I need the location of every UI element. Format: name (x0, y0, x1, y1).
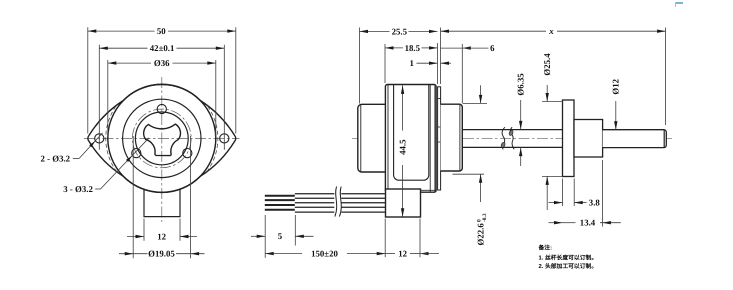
dim 44.5 line (402, 85, 404, 130)
insulated wires (295, 193, 386, 195)
mounting hole right (220, 134, 229, 143)
dim 6 ext line right (461, 44, 463, 104)
dim D19.05 line (119, 253, 148, 255)
dim 50 ext lines (87, 27, 89, 133)
motor body left edge line (387, 85, 389, 192)
svg-text:Ø19.05: Ø19.05 (148, 249, 175, 259)
bolt hole bottom-left (132, 149, 141, 158)
wire break squiggles (335, 187, 337, 217)
dim x line (441, 30, 547, 32)
dim D19.05 ext lines (132, 136, 134, 258)
dim 42 ext lines (98, 45, 100, 150)
svg-text:12: 12 (157, 231, 166, 241)
front boss edge line (360, 105, 362, 172)
shaft break squiggle right (510, 127, 514, 149)
dim x ext line right (665, 28, 667, 126)
dim 12 ext lines (143, 219, 145, 241)
dim 12b line (385, 253, 395, 255)
leader 3-D3.2 line (95, 188, 100, 190)
dim 150 line (265, 253, 302, 255)
dim 18.5 ext line left (384, 44, 386, 83)
dim 13.4 ext line (601, 160, 603, 227)
back plate (438, 87, 441, 190)
svg-text:12: 12 (398, 249, 407, 259)
svg-text:150±20: 150±20 (311, 249, 338, 259)
lead screw shaft (462, 129, 562, 131)
rotor hub cutout (144, 124, 181, 156)
dim 3.8 ext lines (562, 179, 564, 207)
bottom tab (144, 190, 180, 217)
connector block (386, 189, 421, 217)
side view axis centerline (352, 137, 672, 139)
dim D22.6 ext lines (463, 102, 487, 104)
back plate tick 1 (438, 126, 441, 128)
wire break white gap (334, 189, 341, 215)
motor body right edge line (434, 85, 436, 192)
notes text (538, 244, 598, 270)
motor body inner case (394, 85, 429, 180)
rear collar (441, 104, 463, 171)
front boss (358, 104, 385, 172)
svg-text:Ø22.6: Ø22.6 (476, 223, 486, 246)
hidden arc left wing (106, 106, 116, 170)
flange disc D25.4 (563, 100, 575, 177)
inner circle (123, 99, 201, 177)
dim 5 line (251, 235, 265, 237)
motor body circle D36 (108, 84, 216, 192)
dim 3.8 line (549, 202, 563, 204)
dim 5 ext lines (264, 215, 266, 246)
svg-text:5: 5 (278, 231, 283, 241)
svg-text:18.5: 18.5 (405, 43, 421, 53)
pilot circle (135, 112, 188, 165)
motor body bottom edge line (421, 189, 436, 191)
shaft break squiggle left (502, 127, 505, 149)
front view centerline vertical (161, 77, 163, 222)
bolt hole top (157, 104, 166, 113)
dim 42 line (99, 47, 147, 49)
svg-text:x: x (548, 26, 554, 36)
motor body outline (385, 85, 436, 193)
svg-text:42±0.1: 42±0.1 (150, 43, 175, 53)
svg-text:25.5: 25.5 (392, 26, 408, 36)
oval flange outline (88, 84, 236, 192)
bolt circle D19.05 dash-dot (132, 109, 191, 168)
leader 2-D3.2 line (73, 157, 79, 159)
svg-text:3 - Ø3.2: 3 - Ø3.2 (63, 184, 93, 194)
dim 25.5 line (360, 30, 390, 32)
dim D12 leader (615, 101, 617, 130)
dim D36 ext lines (107, 60, 109, 137)
hub cylinder (574, 120, 603, 158)
svg-text:3.8: 3.8 (589, 198, 601, 208)
dim 50 line (88, 30, 155, 32)
dim 1 line (417, 62, 438, 64)
bare wire ends (265, 195, 295, 197)
rear collar edge line (459, 105, 461, 171)
shaft D12 (603, 130, 667, 148)
dim D36 line (108, 62, 151, 64)
svg-text:备注:: 备注: (538, 244, 553, 252)
dim 13.4 line (549, 222, 563, 224)
scan artifact (colored speck) (675, 2, 683, 4)
svg-text:2. 头部加工可以订制。: 2. 头部加工可以订制。 (539, 262, 598, 270)
bolt hole bottom-right (183, 149, 192, 158)
dim D22.6 arrows (480, 85, 482, 103)
svg-text:1: 1 (409, 58, 413, 68)
dim 6 line (441, 47, 463, 49)
shaft D12 end line (663, 130, 665, 147)
svg-text:Ø12: Ø12 (611, 78, 621, 94)
svg-text:50: 50 (157, 26, 166, 36)
svg-text:Ø6.35: Ø6.35 (516, 73, 526, 96)
svg-text:44.5: 44.5 (398, 139, 408, 155)
dim 12 line (127, 236, 144, 238)
svg-text:Ø36: Ø36 (154, 58, 170, 68)
dim 18.5 line (385, 47, 403, 49)
dim D6.35 leader (520, 100, 522, 129)
dim 150 ext lines (264, 246, 266, 258)
dim 1 ext lines (437, 43, 439, 84)
front view centerline horizontal (84, 137, 240, 139)
mounting hole left (95, 134, 104, 143)
svg-text:1. 丝杆长度可以订制。: 1. 丝杆长度可以订制。 (539, 254, 598, 262)
back plate notch (438, 98, 441, 100)
back plate tick 2 (438, 141, 441, 143)
dim 25.5 ext line left (359, 28, 361, 104)
dim D22.6 text (476, 213, 489, 245)
svg-text:-0.3: -0.3 (482, 213, 488, 222)
dim D25.4 ext lines (542, 101, 563, 103)
svg-text:6: 6 (490, 43, 495, 53)
dim D25.4 leader (546, 85, 548, 102)
hidden arc right wing (208, 106, 218, 170)
svg-text:Ø25.4: Ø25.4 (542, 53, 552, 76)
svg-text:13.4: 13.4 (580, 218, 596, 228)
svg-text:2 - Ø3.2: 2 - Ø3.2 (41, 154, 71, 164)
motor body inner edge line (429, 85, 431, 192)
